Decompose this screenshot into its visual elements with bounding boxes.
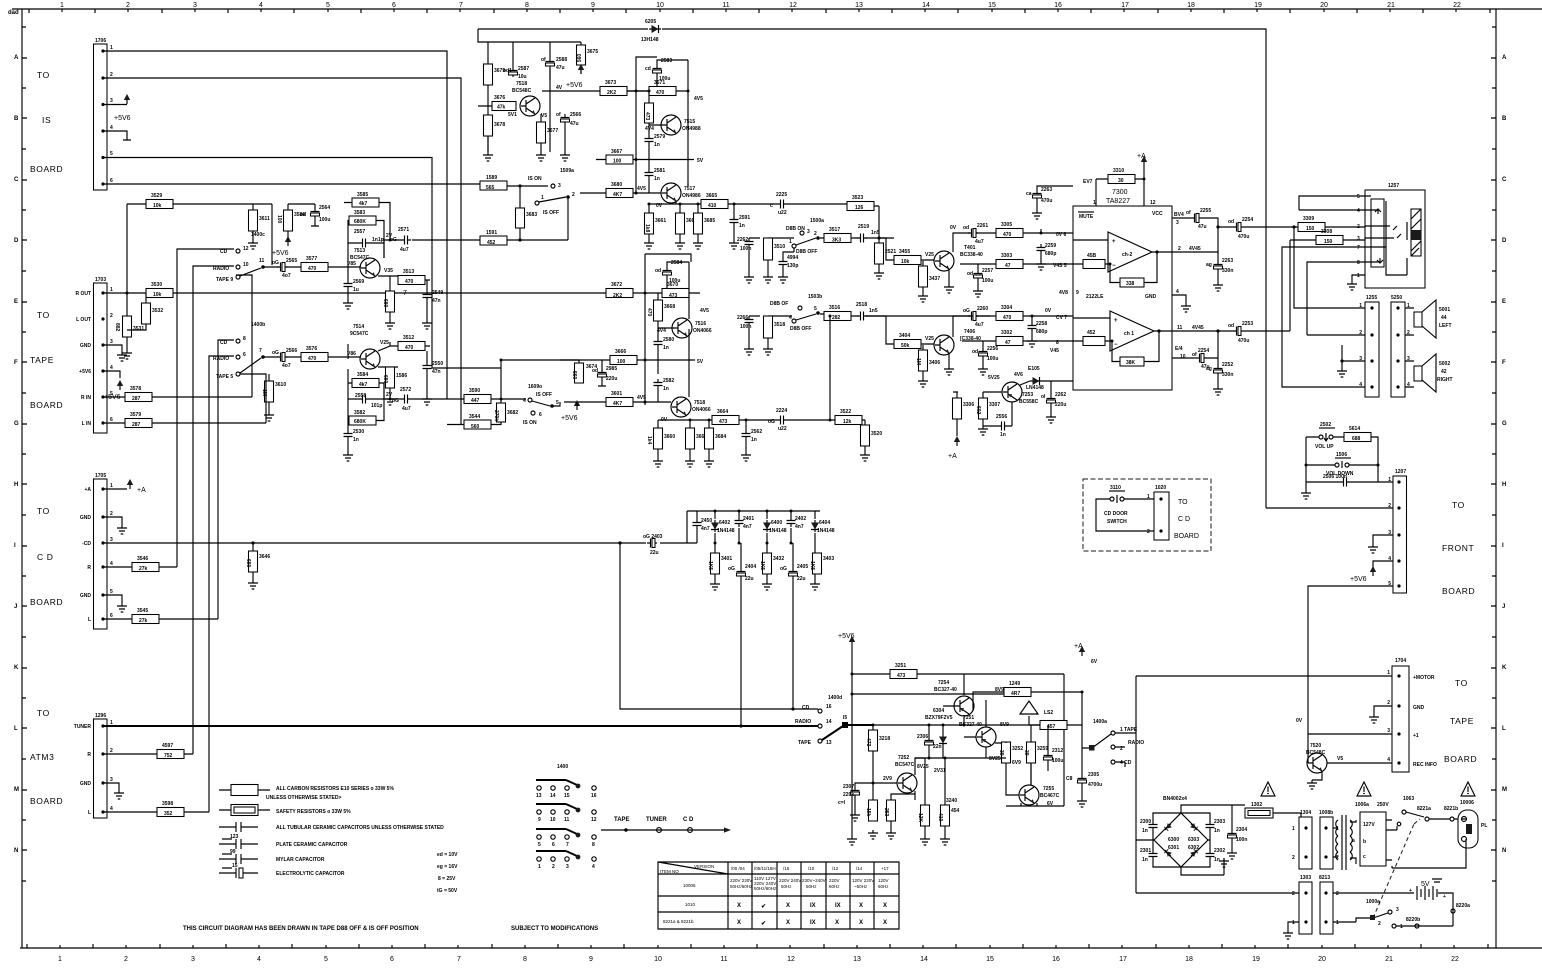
jack hatched contact: [1411, 209, 1421, 256]
svg-text:L: L: [88, 810, 91, 816]
svg-text:2: 2: [126, 2, 130, 9]
transistor 7518 BC548C: [520, 96, 540, 116]
svg-text:473: 473: [719, 419, 728, 425]
svg-text:2305: 2305: [1088, 772, 1099, 778]
svg-text:6: 6: [110, 178, 113, 184]
transistor 7251 BC327-40: [976, 727, 996, 747]
border frame bottom ruler line: [20, 947, 1542, 949]
svg-text:39: 39: [1023, 750, 1029, 756]
svg-text:od: od: [972, 349, 978, 355]
resistor 3680 4K7: [606, 189, 633, 198]
svg-text:7: 7: [459, 2, 463, 9]
switch 1500a DBB ON: [786, 218, 824, 255]
transistor 7513 BC547C: [360, 258, 380, 278]
svg-text:+A: +A: [84, 487, 91, 493]
svg-text:230V~240V: 230V~240V: [802, 878, 826, 883]
svg-text:3667: 3667: [611, 149, 622, 155]
svg-text:3308: 3308: [1321, 229, 1332, 235]
svg-text:2521: 2521: [885, 249, 896, 255]
svg-text:3530: 3530: [151, 282, 162, 288]
capacitor 2225 u22: [777, 200, 787, 209]
resistor 3578 287: [125, 393, 152, 402]
svg-text:16: 16: [1054, 2, 1062, 9]
transistor 7514 BC547C: [360, 349, 380, 369]
border frame right line: [1495, 9, 1497, 948]
svg-text:10k: 10k: [153, 292, 162, 298]
svg-text:6404: 6404: [819, 520, 830, 526]
wire TUNER bus heavy: [103, 725, 818, 727]
wire from 3523 down: [878, 206, 880, 238]
svg-text:BC327-40: BC327-40: [959, 722, 982, 728]
svg-text:BC338-40: BC338-40: [960, 252, 983, 258]
svg-text:2263: 2263: [1222, 258, 1233, 264]
resistor 3518 120k vertical: [764, 316, 773, 338]
wire 1703 pin5 R IN: [103, 396, 252, 398]
svg-text:100u: 100u: [1052, 758, 1063, 764]
svg-text:10: 10: [1180, 354, 1186, 360]
svg-text:50Hz: 50Hz: [806, 884, 817, 889]
svg-text:44: 44: [1441, 315, 1447, 321]
svg-text:cd: cd: [645, 66, 651, 72]
svg-text:IS OFF: IS OFF: [543, 210, 559, 216]
resistor 3253 vertical: [887, 800, 896, 821]
svg-text:X: X: [786, 920, 790, 926]
resistor 1586 680 vertical: [386, 367, 395, 388]
svg-text:4n7: 4n7: [701, 526, 710, 532]
svg-text:473: 473: [865, 738, 871, 747]
svg-text:50Hz/60Hz: 50Hz/60Hz: [730, 884, 753, 889]
svg-text:2550: 2550: [432, 361, 443, 367]
svg-text:VOL UP: VOL UP: [1315, 444, 1334, 450]
svg-text:ALL CARBON RESISTORS E10 SERIE: ALL CARBON RESISTORS E10 SERIES o 33W 5%: [276, 786, 394, 792]
svg-text:−: −: [1112, 263, 1116, 269]
svg-text:V45: V45: [1050, 348, 1059, 354]
svg-text:3: 3: [191, 956, 195, 963]
svg-text:GND: GND: [80, 343, 92, 349]
svg-text:130p: 130p: [787, 263, 798, 269]
svg-text:4: 4: [592, 864, 595, 870]
svg-text:2252: 2252: [1222, 362, 1233, 368]
svg-text:2985: 2985: [606, 366, 617, 372]
+5V6 supply: [124, 94, 130, 104]
svg-text:99: 99: [230, 849, 236, 855]
op-amp ch-2: [1108, 232, 1152, 272]
svg-text:3684: 3684: [715, 434, 726, 440]
svg-text:od: od: [1228, 323, 1234, 329]
speaker 5001 LEFT: [1405, 300, 1452, 338]
svg-text:2562: 2562: [751, 429, 762, 435]
svg-text:+A: +A: [1074, 643, 1083, 650]
bridge rectifier BN4002x4: [1154, 796, 1208, 867]
svg-text:ATM3: ATM3: [30, 752, 54, 762]
capacitor 2257 100u: [974, 270, 983, 280]
svg-text:od: od: [592, 368, 598, 374]
capacitor 2549 47n: [423, 291, 432, 301]
wire upper channel minus input: [960, 264, 1073, 270]
svg-text:22: 22: [1453, 2, 1461, 9]
svg-text:1: 1: [789, 239, 792, 245]
capacitor 2259 680p: [1037, 244, 1046, 254]
svg-text:1589: 1589: [486, 175, 497, 181]
svg-text:F: F: [1502, 360, 1506, 366]
svg-text:3510: 3510: [774, 244, 785, 250]
legend voltage codes: [437, 852, 458, 894]
svg-text:8: 8: [525, 2, 529, 9]
svg-text:0V 6: 0V 6: [1056, 232, 1067, 238]
capacitor 2556 1n: [998, 422, 1008, 431]
svg-text:4: 4: [110, 365, 113, 371]
battery 5V: [1409, 879, 1446, 900]
svg-text:CV 7: CV 7: [1056, 315, 1067, 321]
svg-text:1706: 1706: [95, 38, 106, 44]
svg-text:15: 15: [564, 793, 570, 799]
svg-text:6302: 6302: [1188, 845, 1199, 851]
svg-text:X: X: [883, 920, 887, 926]
svg-text:D: D: [1502, 238, 1507, 244]
svg-text:2580: 2580: [663, 337, 674, 343]
resistor 3672 2K2: [606, 289, 633, 298]
svg-text:ol: ol: [1041, 394, 1046, 400]
resistor 3598 352: [157, 808, 184, 817]
wire IS loop: [501, 360, 560, 406]
svg-text:1400d: 1400d: [828, 695, 842, 701]
svg-text:120V: 120V: [878, 878, 889, 883]
svg-text:1302: 1302: [1251, 802, 1262, 808]
svg-text:c=l: c=l: [838, 800, 846, 806]
svg-text:2401: 2401: [743, 516, 754, 522]
svg-text:15: 15: [232, 863, 238, 869]
svg-text:8221a & 8221b: 8221a & 8221b: [663, 919, 694, 924]
svg-text:3252: 3252: [1012, 746, 1023, 752]
svg-text:7514: 7514: [353, 324, 364, 330]
svg-text:47u: 47u: [556, 65, 565, 71]
svg-text:TAPE: TAPE: [1450, 716, 1474, 726]
resistor 3646 680 vertical: [249, 551, 258, 572]
wire 1705 pin5 gnd: [103, 595, 122, 603]
svg-text:UNLESS OTHERWISE STATED>: UNLESS OTHERWISE STATED>: [266, 795, 342, 801]
resistor 3529 10k: [146, 200, 173, 209]
+5V6 below 3675: [580, 65, 582, 74]
svg-text:8221b: 8221b: [1444, 806, 1458, 812]
capacitor 2565 4u7: [277, 263, 287, 272]
svg-text:1006a: 1006a: [1355, 802, 1369, 808]
resistor 3305 470: [996, 229, 1023, 238]
connector 1704 (TO TAPE BOARD right): [1387, 658, 1437, 772]
resistor 3308 150: [1316, 236, 1343, 245]
svg-text:of: of: [1186, 210, 1191, 216]
svg-text:BOARD: BOARD: [30, 400, 63, 410]
wire 1705 pin6 L to CD8: [103, 618, 218, 620]
svg-text:2V9: 2V9: [883, 776, 892, 782]
svg-text:11: 11: [720, 956, 727, 963]
svg-text:47: 47: [1005, 263, 1011, 269]
warning triangle 3: [1461, 782, 1475, 796]
wire ch2 out up to speaker conn: [1294, 227, 1365, 308]
svg-text:3676: 3676: [494, 95, 505, 101]
svg-text:BC548C: BC548C: [1306, 750, 1326, 756]
svg-text:1400: 1400: [557, 764, 568, 770]
svg-text:27k: 27k: [139, 566, 148, 572]
svg-text:/10: /10: [808, 866, 815, 871]
svg-text:3: 3: [1176, 220, 1179, 226]
speaker 5002 RIGHT: [1405, 354, 1453, 392]
svg-text:oG: oG: [392, 398, 399, 404]
switch 3110 CD DOOR: [1104, 485, 1128, 525]
resistor 3544 560: [464, 420, 491, 429]
svg-text:15k: 15k: [865, 808, 871, 817]
resistor 3240 410 vertical: [941, 805, 950, 826]
text TO FRONT BOARD: [1442, 500, 1475, 596]
svg-text:4: 4: [523, 398, 526, 404]
svg-text:+5V6: +5V6: [1350, 576, 1367, 583]
svg-text:2304: 2304: [1236, 827, 1247, 833]
svg-text:2569: 2569: [353, 279, 364, 285]
resistor 3546 27k: [132, 563, 159, 572]
svg-text:12: 12: [789, 2, 797, 9]
capacitor 2530 1n: [344, 430, 353, 440]
svg-text:4: 4: [110, 125, 113, 131]
svg-text:L: L: [1502, 726, 1506, 732]
svg-text:3403: 3403: [823, 556, 834, 562]
legend plate ceramic: [219, 834, 348, 849]
svg-text:3516: 3516: [829, 305, 840, 311]
svg-text:2: 2: [110, 511, 113, 517]
svg-text:2: 2: [110, 748, 113, 754]
svg-text:3522: 3522: [840, 409, 851, 415]
svg-text:X: X: [859, 903, 863, 909]
resistor 3674 560 vertical: [575, 363, 584, 383]
svg-text:3664: 3664: [717, 409, 728, 415]
capacitor 2307 220k: [851, 787, 860, 797]
svg-text:16: 16: [591, 793, 597, 799]
svg-text:17: 17: [1121, 2, 1129, 9]
svg-text:TUNER: TUNER: [646, 817, 667, 823]
svg-text:602: 602: [975, 406, 981, 415]
headphone jack 1257 box: [1365, 190, 1425, 288]
svg-text:1: 1: [110, 483, 113, 489]
wire 3251 rail: [852, 674, 1064, 806]
svg-text:K: K: [1502, 665, 1507, 671]
wire 1706 pin2 to bus: [103, 78, 461, 424]
wire 7513 collector to 2571: [384, 240, 401, 258]
svg-text:L: L: [14, 726, 18, 732]
svg-text:RADIO: RADIO: [213, 266, 229, 272]
capacitor 2985 220u: [598, 369, 607, 379]
svg-text:8: 8: [1357, 260, 1360, 266]
svg-text:X: X: [737, 920, 741, 926]
svg-text:473: 473: [644, 112, 650, 121]
piezo LS2: [1020, 701, 1038, 714]
svg-text:TA8227: TA8227: [1106, 198, 1130, 205]
svg-text:10k: 10k: [153, 203, 162, 209]
bridge wires: [1136, 805, 1245, 875]
capacitor 2305 4700u: [1078, 775, 1087, 785]
capacitor 2254 470u on ch2 out: [1233, 223, 1243, 232]
+5V6 under 3586: [285, 236, 291, 246]
svg-text:MYLAR CAPACITOR: MYLAR CAPACITOR: [276, 857, 325, 863]
svg-text:680: 680: [245, 559, 251, 568]
svg-text:TO: TO: [1455, 678, 1468, 688]
resistor 3401 1K5 vertical: [711, 553, 720, 574]
resistor 3583 680K: [349, 216, 376, 225]
svg-text:1K5: 1K5: [759, 561, 765, 570]
svg-text:6: 6: [390, 956, 394, 963]
svg-text:FRONT: FRONT: [1442, 543, 1474, 553]
wire 1296 pin4 L: [103, 811, 209, 813]
svg-text:REC INFO: REC INFO: [1413, 762, 1437, 768]
svg-text:+5V6: +5V6: [838, 633, 855, 640]
svg-text:2572: 2572: [400, 387, 411, 393]
svg-text:1: 1: [58, 956, 62, 963]
legend mylar: [219, 849, 325, 864]
svg-text:470u: 470u: [1238, 234, 1249, 240]
svg-text:20: 20: [1320, 2, 1328, 9]
svg-text:u22: u22: [778, 426, 787, 432]
svg-text:3682: 3682: [507, 410, 518, 416]
svg-text:3590: 3590: [469, 388, 480, 394]
capacitor 2581 1n: [645, 169, 654, 179]
svg-text:1591: 1591: [486, 230, 497, 236]
svg-text:2: 2: [1336, 891, 1339, 897]
svg-text:+5V6: +5V6: [272, 250, 289, 257]
+5V6 near IS switch: [574, 400, 580, 410]
svg-text:TO: TO: [1178, 499, 1188, 506]
svg-text:6301: 6301: [1168, 845, 1179, 851]
switch 1503b DBB OFF lower: [770, 294, 822, 332]
svg-text:RADIO: RADIO: [213, 356, 229, 362]
capacitor 2304 100n: [1228, 830, 1237, 840]
transistor 7520 BC548C: [1307, 753, 1327, 773]
svg-text:E: E: [1502, 299, 1506, 305]
svg-text:452: 452: [487, 240, 496, 246]
svg-text:6: 6: [110, 417, 113, 423]
svg-text:9: 9: [538, 817, 541, 823]
svg-text:2302: 2302: [1214, 848, 1225, 854]
resistor 3251 473: [890, 670, 917, 679]
svg-text:60Hz: 60Hz: [878, 884, 889, 889]
svg-text:1010: 1010: [685, 902, 696, 907]
resistor 3404 50k: [894, 340, 921, 349]
resistor 3666 100: [610, 356, 637, 365]
svg-text:410: 410: [937, 813, 943, 822]
svg-text:3303: 3303: [1001, 253, 1012, 259]
svg-text:9: 9: [589, 956, 593, 963]
svg-text:6304: 6304: [933, 708, 944, 714]
svg-text:1: 1: [110, 45, 113, 51]
CD door switch dashed box: [1083, 479, 1211, 551]
transistor 7254 BC327-40: [954, 696, 974, 716]
resistor 3576 470: [301, 353, 328, 362]
svg-text:G: G: [14, 421, 19, 427]
svg-text:4597: 4597: [162, 743, 173, 749]
wire 1704 pin2 gnd: [1374, 706, 1392, 714]
svg-text:of: of: [1192, 352, 1197, 358]
svg-text:447: 447: [471, 398, 480, 404]
svg-text:2303: 2303: [1214, 819, 1225, 825]
svg-text:4V45: 4V45: [1192, 325, 1204, 331]
svg-text:J: J: [1502, 604, 1505, 610]
svg-text:N: N: [14, 848, 18, 854]
svg-text:10: 10: [656, 2, 664, 9]
legend resistor carbon: [219, 785, 394, 802]
svg-text:/15: /15: [783, 866, 790, 871]
svg-text:220V: 220V: [829, 878, 840, 883]
svg-text:22: 22: [1451, 956, 1459, 963]
svg-text:1n: 1n: [663, 345, 669, 351]
svg-text:+: +: [1114, 318, 1118, 324]
svg-text:220V 230V: 220V 230V: [730, 878, 752, 883]
svg-text:12: 12: [1150, 200, 1156, 206]
svg-text:2262: 2262: [737, 237, 748, 243]
svg-text:TAPE: TAPE: [614, 817, 630, 823]
svg-text:16: 16: [826, 704, 832, 710]
capacitor 2306 22n: [925, 737, 934, 747]
svg-text:-CD: -CD: [82, 541, 91, 547]
svg-text:338: 338: [1126, 281, 1135, 287]
svg-text:SUBJECT TO MODIFICATIONS: SUBJECT TO MODIFICATIONS: [511, 926, 598, 932]
svg-text:BV4: BV4: [1174, 212, 1184, 218]
resistor 1249 4K7: [1004, 688, 1031, 697]
resistor 3601 4K7: [606, 398, 633, 407]
capacitor 2255 47u: [1191, 214, 1201, 223]
resistor 3252 vertical: [1002, 742, 1011, 763]
border frame top ruler line: [12, 8, 1542, 10]
svg-text:CD: CD: [802, 705, 810, 711]
wire 7518 collector row to 7515 stage: [542, 90, 688, 92]
wire lower channel to input network: [894, 315, 990, 317]
svg-text:C: C: [1502, 177, 1507, 183]
svg-text:oG 2403: oG 2403: [643, 534, 663, 540]
transistor T401 BC338-40: [934, 251, 954, 271]
capacitor 2403 22u on -CD bus: [647, 539, 657, 548]
svg-text:6303: 6303: [1188, 837, 1199, 843]
svg-text:c: c: [770, 203, 773, 209]
svg-text:+5V6: +5V6: [561, 415, 578, 422]
svg-text:4V45: 4V45: [1189, 246, 1201, 252]
svg-text:3583: 3583: [354, 210, 365, 216]
svg-text:2588: 2588: [556, 57, 567, 63]
svg-text:TO: TO: [1452, 500, 1465, 510]
svg-text:1n: 1n: [751, 437, 757, 443]
svg-text:47: 47: [1005, 340, 1011, 346]
svg-text:CD DOOR: CD DOOR: [1104, 511, 1128, 517]
resistor 3303 47: [996, 260, 1023, 269]
svg-text:2260: 2260: [977, 306, 988, 312]
svg-text:5001: 5001: [1439, 307, 1450, 313]
svg-text:+MOTOR: +MOTOR: [1413, 675, 1435, 681]
resistor 3513 470: [398, 276, 425, 285]
svg-text:H: H: [14, 482, 18, 488]
resistor 3675 560: [577, 45, 586, 65]
svg-text:1N4148: 1N4148: [717, 528, 735, 534]
svg-text:J: J: [14, 604, 17, 610]
capacitor 2571 4u7: [401, 236, 411, 245]
svg-text:12: 12: [787, 956, 795, 963]
svg-text:E/4: E/4: [1175, 346, 1183, 352]
svg-text:60Hz: 60Hz: [829, 884, 840, 889]
svg-text:ELECTROLYTIC CAPACITOR: ELECTROLYTIC CAPACITOR: [276, 871, 345, 877]
svg-text:220u: 220u: [1055, 402, 1066, 408]
svg-text:3: 3: [110, 537, 113, 543]
svg-text:8V25: 8V25: [917, 764, 929, 770]
svg-text:1400a: 1400a: [1093, 719, 1107, 725]
svg-text:IS: IS: [42, 115, 51, 125]
+A under 7253 net: [954, 436, 960, 446]
svg-text:13H148: 13H148: [641, 37, 659, 43]
resistor 3306 vertical: [953, 398, 962, 419]
svg-text:1703: 1703: [95, 277, 106, 283]
wire 1507 pin2 long: [1266, 507, 1393, 509]
